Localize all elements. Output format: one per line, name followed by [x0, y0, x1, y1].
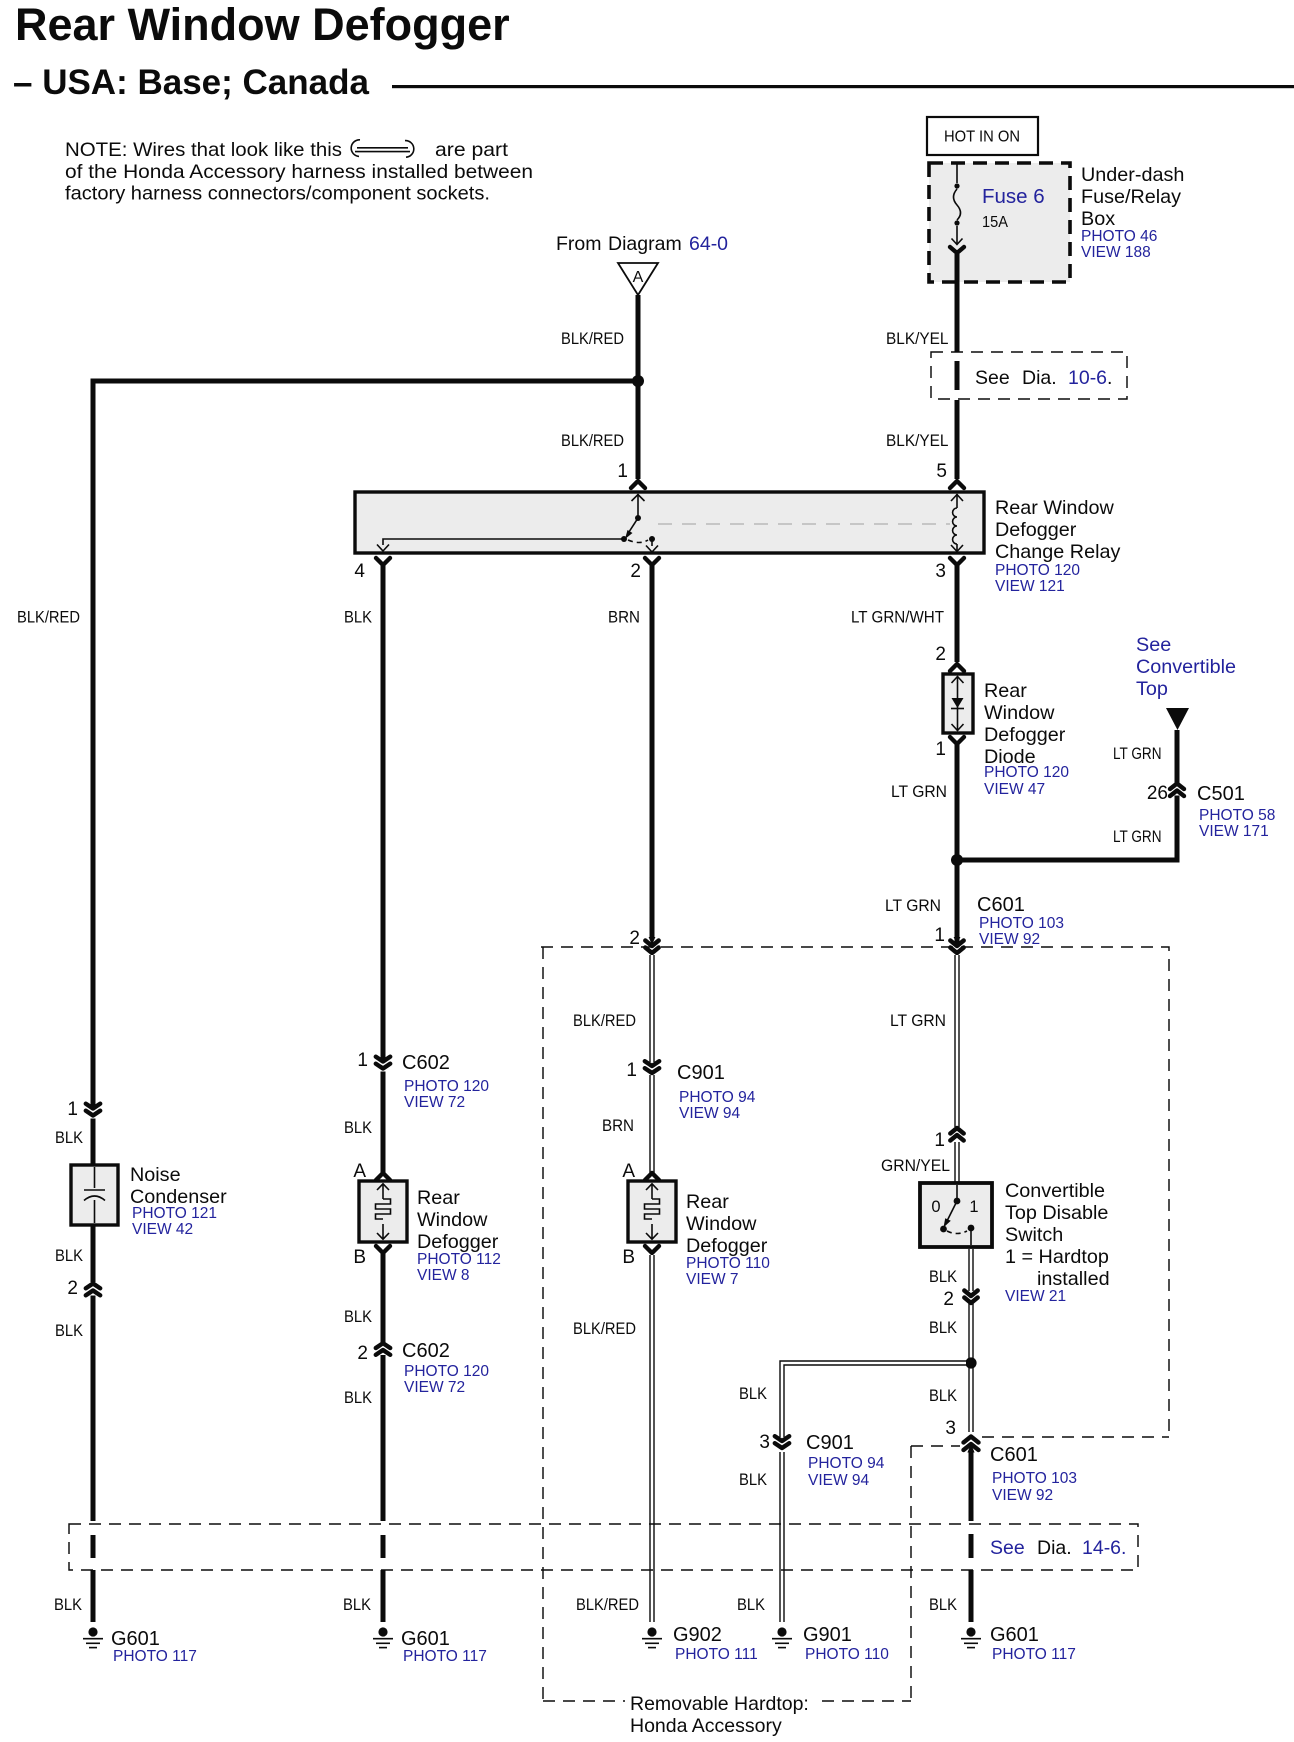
- svg-text:0: 0: [931, 1198, 940, 1216]
- svg-text:2: 2: [357, 1343, 368, 1364]
- svg-text:C602: C602: [402, 1052, 450, 1074]
- svg-text:PHOTO 58: PHOTO 58: [1199, 807, 1275, 824]
- svg-text:BLK: BLK: [344, 1389, 372, 1407]
- C602 labels (lower): [402, 1340, 489, 1396]
- svg-text:BRN: BRN: [608, 609, 640, 627]
- ground G601 (left): [83, 1627, 197, 1665]
- C901 labels: [677, 1062, 756, 1122]
- condenser name: [130, 1164, 227, 1238]
- svg-text:LT GRN: LT GRN: [1113, 828, 1162, 846]
- double wire BLK/RED (accessory): [649, 955, 654, 1174]
- see convertible top note: [1136, 634, 1236, 700]
- svg-text:Noise: Noise: [130, 1164, 181, 1186]
- svg-text:C601: C601: [977, 894, 1025, 916]
- wire BLK condenser to ground: [91, 1225, 96, 1622]
- wire BLK/RED from triangle to relay pin 1: [636, 295, 641, 479]
- defogger name (middle): [686, 1191, 770, 1288]
- svg-text:BLK: BLK: [343, 1596, 371, 1614]
- svg-text:VIEW 121: VIEW 121: [995, 578, 1065, 595]
- svg-text:PHOTO 94: PHOTO 94: [808, 1455, 885, 1472]
- svg-text:BLK: BLK: [929, 1268, 957, 1286]
- svg-text:Rear: Rear: [686, 1191, 729, 1213]
- svg-text:PHOTO 117: PHOTO 117: [992, 1646, 1076, 1663]
- svg-text:2: 2: [630, 561, 641, 582]
- svg-text:Fuse 6: Fuse 6: [982, 185, 1045, 208]
- svg-text:Dia.: Dia.: [1037, 1537, 1072, 1559]
- pin 3 connector: [950, 558, 964, 565]
- svg-text:BLK: BLK: [739, 1471, 767, 1489]
- svg-text:LT GRN: LT GRN: [890, 1012, 946, 1030]
- svg-text:BLK: BLK: [55, 1322, 83, 1340]
- fuse F6 symbol: [952, 164, 963, 245]
- svg-text:1: 1: [934, 925, 945, 946]
- junction node (LT GRN): [951, 854, 963, 866]
- svg-text:VIEW 21: VIEW 21: [1005, 1288, 1066, 1305]
- svg-text:2: 2: [629, 928, 640, 949]
- wire BLK (factory) C601 to G601: [969, 1452, 974, 1622]
- svg-text:LT GRN/WHT: LT GRN/WHT: [851, 609, 944, 627]
- svg-text:G901: G901: [803, 1624, 852, 1646]
- switch name: [1005, 1180, 1110, 1305]
- svg-text:A: A: [353, 1161, 366, 1182]
- svg-text:BLK: BLK: [54, 1596, 82, 1614]
- svg-text:BLK: BLK: [344, 1119, 372, 1137]
- svg-text:VIEW 94: VIEW 94: [679, 1105, 741, 1122]
- connector C602 (lower): [376, 1343, 390, 1355]
- svg-text:A: A: [622, 1161, 635, 1182]
- svg-text:Defogger: Defogger: [686, 1235, 768, 1257]
- relay internal contact to pin 2 (dashed rest position): [628, 536, 658, 552]
- svg-text:BLK: BLK: [344, 1308, 372, 1326]
- triangle to convertible top: [1166, 708, 1189, 730]
- svg-text:Top: Top: [1136, 678, 1168, 700]
- accessory-wire symbol in note: [351, 140, 414, 157]
- svg-text:2: 2: [935, 644, 946, 665]
- double wire LT GRN C601 to switch: [954, 955, 959, 1182]
- svg-text:5: 5: [936, 461, 947, 482]
- svg-text:14-6.: 14-6.: [1082, 1537, 1126, 1559]
- pin 2 connector: [645, 558, 659, 565]
- wire LT GRN junction to C501: [957, 730, 1180, 860]
- rear window defogger diode D1: [943, 674, 973, 733]
- connector C901 pin 3: [775, 1436, 789, 1448]
- wire BRN relay pin2 down: [650, 565, 655, 938]
- pin A connector: [376, 1173, 390, 1180]
- svg-text:BRN: BRN: [602, 1117, 634, 1135]
- svg-text:PHOTO 111: PHOTO 111: [675, 1646, 758, 1663]
- connector C501: [1170, 784, 1184, 797]
- svg-text:64-0: 64-0: [689, 233, 728, 255]
- C501 labels: [1197, 783, 1275, 840]
- svg-text:Window: Window: [417, 1209, 488, 1231]
- svg-text:BLK: BLK: [929, 1387, 957, 1405]
- svg-text:VIEW 92: VIEW 92: [992, 1487, 1053, 1504]
- svg-text:Box: Box: [1081, 208, 1115, 230]
- svg-text:C901: C901: [677, 1062, 725, 1084]
- wire BLK/RED down left side: [91, 379, 96, 1166]
- C601 labels (bottom): [990, 1444, 1077, 1504]
- svg-text:C501: C501: [1197, 783, 1245, 805]
- svg-text:PHOTO 117: PHOTO 117: [113, 1648, 197, 1665]
- svg-text:PHOTO 117: PHOTO 117: [403, 1648, 487, 1665]
- svg-text:2: 2: [67, 1278, 78, 1299]
- svg-text:1: 1: [934, 1130, 945, 1151]
- ground G601 (right): [961, 1624, 1076, 1663]
- svg-text:PHOTO 103: PHOTO 103: [979, 915, 1064, 932]
- svg-text:BLK/RED: BLK/RED: [561, 432, 624, 450]
- svg-text:1: 1: [67, 1099, 78, 1120]
- svg-text:VIEW 92: VIEW 92: [979, 931, 1040, 948]
- svg-text:are part: are part: [435, 139, 509, 161]
- pin B connector: [376, 1246, 390, 1253]
- pin 4 connector: [376, 558, 390, 565]
- svg-text:1: 1: [935, 739, 946, 760]
- connector C601 pin 1: [950, 937, 963, 953]
- svg-text:of the Honda Accessory harness: of the Honda Accessory harness installed…: [65, 161, 533, 183]
- svg-text:VIEW 7: VIEW 7: [686, 1271, 739, 1288]
- rear window defogger element (middle): [628, 1181, 676, 1242]
- svg-text:See: See: [975, 367, 1010, 389]
- convertible top disable switch S1: [920, 1183, 992, 1247]
- svg-text:Top Disable: Top Disable: [1005, 1202, 1108, 1224]
- diode name: [984, 680, 1069, 798]
- hardtop caption: [630, 1693, 809, 1737]
- svg-text:Window: Window: [984, 702, 1055, 724]
- diode pin 2 connector: [950, 664, 964, 671]
- svg-text:Honda Accessory: Honda Accessory: [630, 1715, 782, 1737]
- svg-text:PHOTO 94: PHOTO 94: [679, 1089, 756, 1106]
- relay internal contact from pin 1: [377, 494, 645, 551]
- svg-text:BLK/RED: BLK/RED: [573, 1012, 636, 1030]
- svg-text:1: 1: [626, 1060, 637, 1081]
- svg-text:PHOTO 110: PHOTO 110: [805, 1646, 889, 1663]
- ground G901: [772, 1624, 889, 1663]
- svg-text:NOTE: Wires that look like thi: NOTE: Wires that look like this: [65, 139, 342, 161]
- pin B connector (middle): [645, 1246, 659, 1253]
- svg-text:Window: Window: [686, 1213, 757, 1235]
- svg-text:BLK/YEL: BLK/YEL: [886, 330, 949, 348]
- connector (GRN/YEL): [950, 1128, 963, 1141]
- pin 5 connector: [950, 481, 964, 488]
- wire BLK defogger to C602 lower: [381, 1253, 386, 1622]
- wire LT GRN/WHT relay pin3 to diode: [955, 565, 960, 662]
- svg-text:Defogger: Defogger: [417, 1231, 499, 1253]
- double wire BLK/RED to G902: [649, 1255, 654, 1622]
- svg-text:– USA: Base; Canada: – USA: Base; Canada: [13, 63, 369, 102]
- connector C602 (upper): [376, 1057, 390, 1069]
- svg-text:26: 26: [1147, 783, 1168, 804]
- connector (BLK, switch lead): [964, 1291, 977, 1304]
- svg-text:BLK/RED: BLK/RED: [17, 609, 80, 627]
- svg-text:Fuse/Relay: Fuse/Relay: [1081, 186, 1181, 208]
- svg-text:LT GRN: LT GRN: [885, 897, 941, 915]
- svg-text:Rear Window: Rear Window: [995, 497, 1114, 519]
- svg-text:Under-dash: Under-dash: [1081, 164, 1184, 186]
- svg-text:Change Relay: Change Relay: [995, 541, 1120, 563]
- svg-text:BLK: BLK: [929, 1319, 957, 1337]
- HOT IN ON box: [927, 117, 1038, 155]
- connector C601 pin 3: [964, 1437, 979, 1453]
- svg-text:PHOTO 120: PHOTO 120: [404, 1078, 489, 1095]
- svg-text:Defogger: Defogger: [995, 519, 1077, 541]
- svg-text:B: B: [353, 1247, 366, 1268]
- C901 labels (bottom): [806, 1432, 885, 1489]
- double wire BLK below switch: [968, 1249, 973, 1432]
- svg-text:G601: G601: [990, 1624, 1039, 1646]
- svg-text:VIEW 171: VIEW 171: [1199, 823, 1269, 840]
- svg-text:Diagram: Diagram: [608, 233, 682, 255]
- svg-text:factory harness connectors/com: factory harness connectors/component soc…: [65, 183, 490, 205]
- connector pin 2 (wire-to-wire): [86, 1284, 100, 1296]
- svg-text:BLK: BLK: [737, 1596, 765, 1614]
- rear window defogger element (left): [359, 1181, 407, 1242]
- C602 labels: [402, 1052, 489, 1111]
- connector at harness boundary (middle): [645, 937, 658, 953]
- defogger name (left): [417, 1187, 501, 1284]
- svg-text:HOT IN ON: HOT IN ON: [944, 129, 1020, 146]
- svg-text:Switch: Switch: [1005, 1224, 1063, 1246]
- svg-text:BLK: BLK: [344, 609, 372, 627]
- wire BLK/YEL fuse to relay pin 5: [955, 254, 960, 479]
- svg-text:Rear: Rear: [417, 1187, 460, 1209]
- svg-text:Rear Window Defogger: Rear Window Defogger: [15, 0, 510, 50]
- svg-text:15A: 15A: [982, 214, 1008, 231]
- svg-text:VIEW 72: VIEW 72: [404, 1094, 465, 1111]
- svg-text:LT GRN: LT GRN: [891, 783, 947, 801]
- relay box K1: [355, 492, 984, 553]
- svg-text:BLK/RED: BLK/RED: [573, 1320, 636, 1338]
- svg-text:BLK/YEL: BLK/YEL: [886, 432, 949, 450]
- svg-text:BLK: BLK: [739, 1385, 767, 1403]
- svg-text:1: 1: [617, 461, 628, 482]
- svg-text:Rear: Rear: [984, 680, 1027, 702]
- dashed harness boundary (removable hardtop region): [541, 947, 1169, 1701]
- junction node: [632, 375, 644, 387]
- svg-text:BLK: BLK: [929, 1596, 957, 1614]
- svg-text:VIEW 94: VIEW 94: [808, 1472, 870, 1489]
- svg-text:3: 3: [935, 561, 946, 582]
- svg-text:PHOTO 112: PHOTO 112: [417, 1251, 501, 1268]
- See Dia. 10-6. dashed box: [931, 352, 1127, 399]
- svg-text:BLK: BLK: [55, 1129, 83, 1147]
- svg-text:C901: C901: [806, 1432, 854, 1454]
- connector C901 (upper): [645, 1061, 659, 1073]
- svg-text:G902: G902: [673, 1624, 722, 1646]
- svg-text:1 = Hardtop: 1 = Hardtop: [1005, 1246, 1109, 1268]
- C601 labels top: [977, 894, 1064, 948]
- svg-text:PHOTO 120: PHOTO 120: [995, 562, 1080, 579]
- svg-text:From: From: [556, 233, 602, 255]
- connector pin 1 (wire-to-wire): [86, 1104, 100, 1116]
- svg-text:See: See: [990, 1537, 1025, 1559]
- svg-text:4: 4: [354, 561, 365, 582]
- svg-text:Convertible: Convertible: [1136, 656, 1236, 678]
- svg-text:See: See: [1136, 634, 1171, 656]
- svg-text:Removable Hardtop:: Removable Hardtop:: [630, 1693, 809, 1715]
- relay coil: [951, 494, 963, 552]
- double wire BLK branch to G901: [782, 1363, 969, 1622]
- svg-text:VIEW 8: VIEW 8: [417, 1267, 470, 1284]
- svg-text:PHOTO 120: PHOTO 120: [984, 764, 1069, 781]
- junction node (BLK): [965, 1357, 976, 1368]
- wire BLK relay pin4 to C602: [381, 565, 386, 1173]
- Under-dash Fuse/Relay Box (dashed): [929, 163, 1070, 282]
- svg-text:Convertible: Convertible: [1005, 1180, 1105, 1202]
- pin 1 connector: [631, 481, 645, 488]
- diode pin 1 connector: [950, 737, 964, 744]
- svg-text:Dia.: Dia.: [1022, 367, 1057, 389]
- svg-text:PHOTO 121: PHOTO 121: [132, 1205, 217, 1222]
- svg-text:PHOTO 110: PHOTO 110: [686, 1255, 770, 1272]
- svg-text:BLK/RED: BLK/RED: [576, 1596, 639, 1614]
- svg-text:C601: C601: [990, 1444, 1038, 1466]
- svg-text:VIEW 42: VIEW 42: [132, 1221, 193, 1238]
- svg-text:BLK/RED: BLK/RED: [561, 330, 624, 348]
- svg-text:Defogger: Defogger: [984, 724, 1066, 746]
- noise condenser C: [71, 1165, 118, 1225]
- svg-text:GRN/YEL: GRN/YEL: [881, 1157, 950, 1175]
- ground G601 (column 2): [373, 1627, 487, 1665]
- svg-text:10-6.: 10-6.: [1068, 367, 1112, 389]
- svg-text:C602: C602: [402, 1340, 450, 1362]
- svg-text:G601: G601: [401, 1628, 450, 1650]
- svg-text:PHOTO 120: PHOTO 120: [404, 1363, 489, 1380]
- svg-text:VIEW 188: VIEW 188: [1081, 244, 1151, 261]
- svg-text:installed: installed: [1037, 1268, 1110, 1290]
- connector at fuse box outlet: [950, 247, 964, 253]
- relay internal link (dashed to coil): [658, 523, 950, 525]
- svg-text:PHOTO 103: PHOTO 103: [992, 1470, 1077, 1487]
- wire LT GRN diode to junction: [955, 744, 960, 944]
- svg-text:VIEW 47: VIEW 47: [984, 781, 1045, 798]
- svg-text:2: 2: [943, 1289, 954, 1310]
- svg-text:3: 3: [945, 1418, 956, 1439]
- ground G902: [642, 1624, 758, 1663]
- wire BLK/RED horizontal branch to left: [91, 379, 639, 384]
- svg-text:PHOTO 46: PHOTO 46: [1081, 228, 1157, 245]
- svg-text:1: 1: [969, 1198, 978, 1216]
- triangle A (from diagram): [618, 263, 658, 295]
- svg-text:LT GRN: LT GRN: [1113, 745, 1162, 763]
- svg-text:A: A: [633, 269, 644, 286]
- relay name: [995, 497, 1120, 595]
- svg-text:B: B: [622, 1247, 635, 1268]
- svg-text:VIEW 72: VIEW 72: [404, 1379, 465, 1396]
- svg-text:3: 3: [759, 1432, 770, 1453]
- svg-text:BLK: BLK: [55, 1247, 83, 1265]
- svg-text:1: 1: [357, 1050, 368, 1071]
- svg-text:G601: G601: [111, 1628, 160, 1650]
- pin A connector (middle): [645, 1173, 659, 1180]
